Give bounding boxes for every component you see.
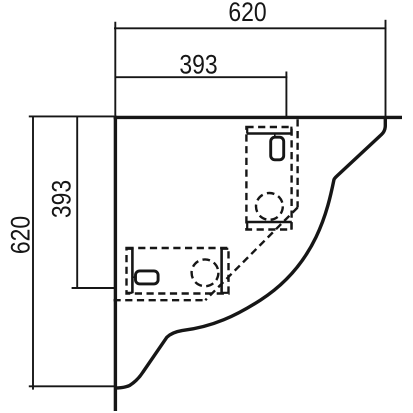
svg-text:393: 393 (179, 50, 217, 80)
svg-text:620: 620 (228, 0, 266, 28)
svg-text:620: 620 (6, 216, 36, 254)
svg-text:393: 393 (47, 180, 77, 218)
